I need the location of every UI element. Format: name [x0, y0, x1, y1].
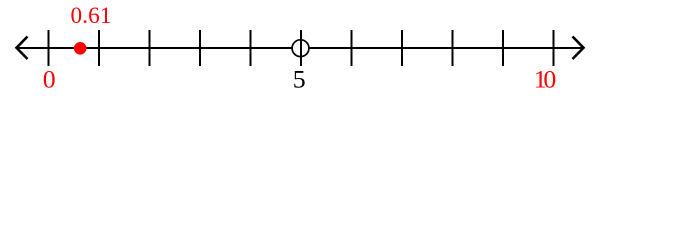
svg-text:10: 10 — [534, 65, 557, 94]
svg-text:0: 0 — [43, 65, 56, 94]
svg-text:0.61: 0.61 — [71, 3, 112, 29]
svg-text:5: 5 — [293, 65, 306, 94]
